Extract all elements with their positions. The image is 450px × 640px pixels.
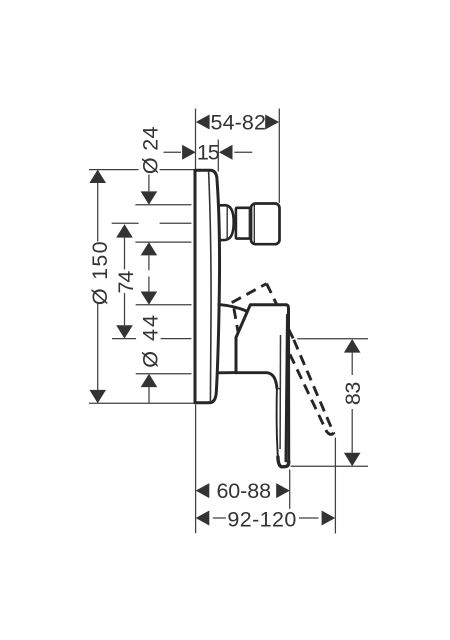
svg-text:54-82: 54-82 <box>211 110 267 134</box>
svg-text:74: 74 <box>114 271 138 294</box>
svg-text:Ø 44: Ø 44 <box>139 313 163 368</box>
svg-text:Ø 24: Ø 24 <box>139 126 163 174</box>
svg-text:83: 83 <box>341 382 365 406</box>
svg-text:15: 15 <box>197 141 220 165</box>
svg-text:Ø 150: Ø 150 <box>88 240 112 305</box>
svg-text:92-120: 92-120 <box>227 507 296 531</box>
svg-text:60-88: 60-88 <box>216 479 271 503</box>
